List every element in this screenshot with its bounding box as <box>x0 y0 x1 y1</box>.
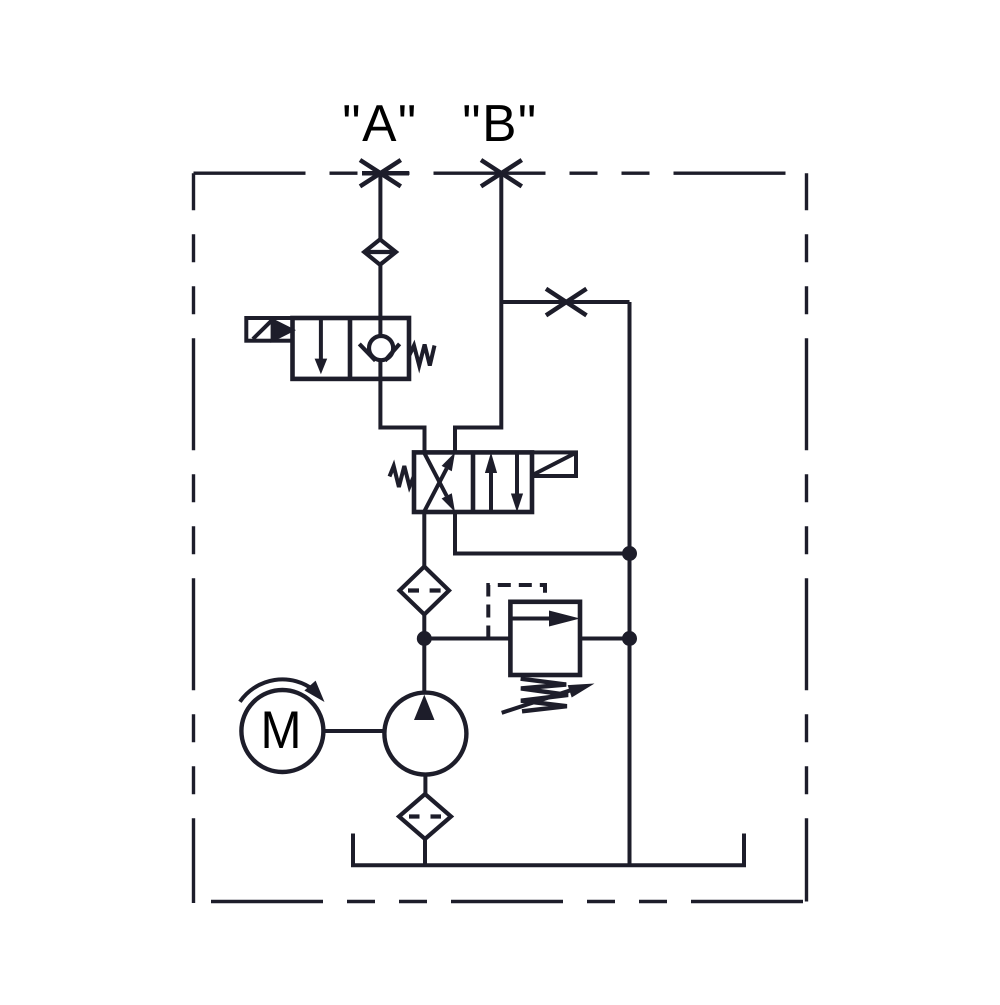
motor M1 circle <box>241 690 323 772</box>
relief valve RV1 pilot line (dashed) <box>488 585 545 639</box>
valve V2 body (4/2 directional valve) <box>414 452 532 512</box>
shaft motor to pump <box>323 729 384 733</box>
wire port B down <box>455 173 501 452</box>
enclosure border top <box>194 171 807 174</box>
valve V1 check valve (circle on V seat) <box>359 336 399 361</box>
relief valve RV1 adjustment arrow <box>502 690 572 713</box>
pump P1 circle <box>384 693 466 775</box>
enclosure border bottom <box>211 900 807 903</box>
port A plug symbol <box>360 160 409 186</box>
wire V2 bottom left port to filter F1 <box>422 512 426 567</box>
test point plug X <box>546 289 587 316</box>
orifice D1 (diamond with bar) <box>364 239 396 264</box>
valve V2 solenoid <box>532 452 576 476</box>
svg-text:"B": "B" <box>462 94 537 152</box>
enclosure border left <box>192 173 195 903</box>
wire RV1 outlet to right bus <box>580 637 630 641</box>
svg-text:"A": "A" <box>342 94 417 152</box>
valve V2 crossed arrows <box>424 452 447 512</box>
wire F1 to pump P1 <box>422 615 426 693</box>
relief valve RV1 spring <box>521 679 569 712</box>
filter F1 (pressure) <box>400 567 450 615</box>
pump P1 outlet triangle <box>414 695 435 720</box>
junction dot J1 <box>622 546 637 561</box>
wire branch to relief valve RV1 <box>424 637 510 641</box>
valve V2 straight arrows <box>489 470 493 512</box>
wire right bus down from test point <box>628 302 632 865</box>
relief valve RV1 body <box>510 602 580 675</box>
valve V1 left square flow arrow <box>319 318 323 360</box>
relief valve RV1 flow arrow <box>510 617 551 621</box>
wire branch B to test point <box>501 300 629 304</box>
svg-text:M: M <box>261 701 302 760</box>
wire F2 to tank <box>423 839 427 865</box>
enclosure border right <box>805 173 808 901</box>
solenoid of valve V1 <box>246 318 292 341</box>
valve V1 spring <box>410 345 435 366</box>
motor M1 rotation arrow arc <box>240 679 314 701</box>
tank T1 <box>353 834 744 866</box>
valve V2 spring <box>390 466 415 487</box>
junction dot J2 <box>417 631 432 646</box>
wire orifice to valve V1 <box>378 265 382 336</box>
filter F2 (suction) <box>399 794 451 839</box>
port B plug symbol <box>481 160 522 186</box>
valve V1 body (2/2 solenoid cartridge valve) <box>293 318 410 379</box>
wire pump to suction filter F2 <box>423 775 427 794</box>
junction dot J3 <box>622 631 637 646</box>
wire V1 check to valve V2 (A branch) <box>380 361 424 453</box>
wire V2 bottom right port to right bus <box>455 512 630 554</box>
wire A port down to orifice <box>378 173 382 239</box>
